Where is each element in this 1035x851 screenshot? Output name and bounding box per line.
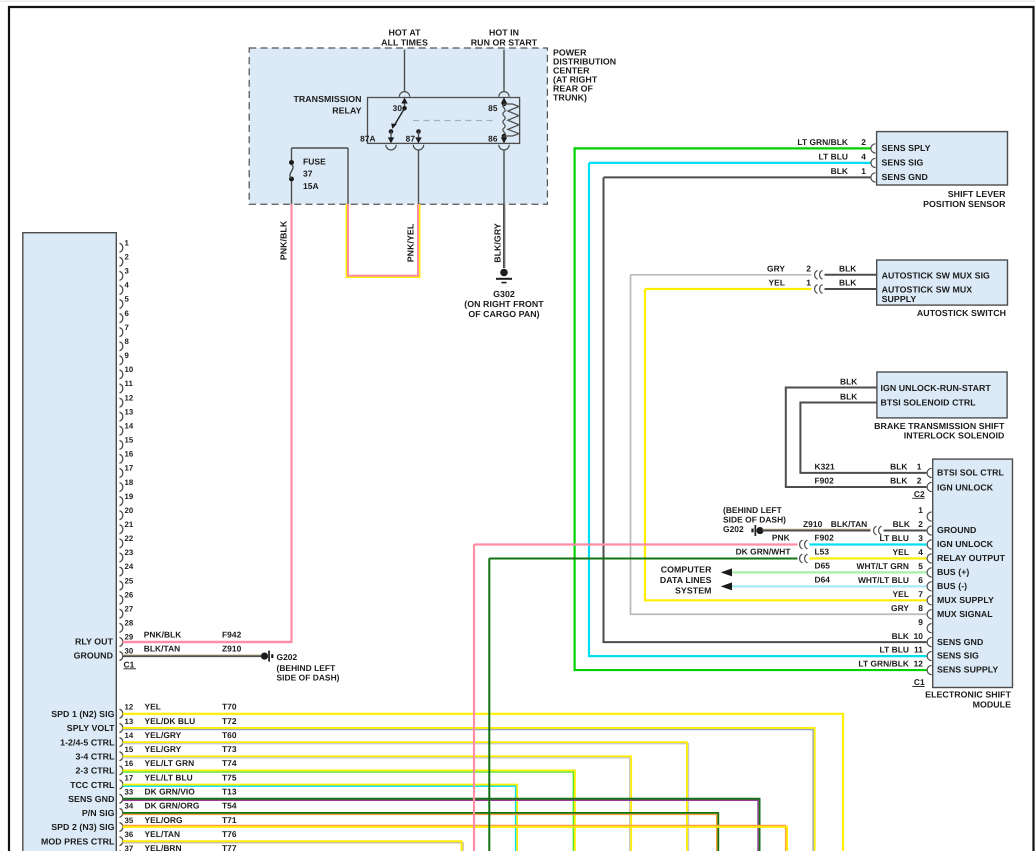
svg-text:33: 33: [125, 788, 134, 797]
svg-text:GROUND: GROUND: [937, 525, 976, 535]
svg-text:14: 14: [125, 421, 134, 430]
svg-text:23: 23: [125, 548, 134, 557]
svg-text:PNK/BLK: PNK/BLK: [279, 220, 289, 260]
svg-text:36: 36: [125, 830, 134, 839]
svg-text:D65: D65: [815, 561, 831, 571]
svg-text:RUN OR START: RUN OR START: [471, 38, 538, 48]
svg-text:MODULE: MODULE: [973, 700, 1011, 710]
svg-text:BUS (+): BUS (+): [937, 567, 969, 577]
svg-text:24: 24: [125, 562, 134, 571]
svg-text:15: 15: [125, 745, 134, 754]
svg-text:1: 1: [861, 166, 866, 176]
svg-text:YEL/ORG: YEL/ORG: [145, 815, 183, 825]
svg-text:29: 29: [125, 633, 134, 642]
svg-text:F902: F902: [815, 476, 835, 486]
svg-text:Z910: Z910: [222, 644, 242, 654]
svg-text:28: 28: [125, 619, 134, 628]
svg-text:26: 26: [125, 590, 134, 599]
svg-text:Z910: Z910: [803, 519, 823, 529]
svg-text:YEL/DK BLU: YEL/DK BLU: [145, 716, 196, 726]
svg-text:15A: 15A: [303, 181, 319, 191]
svg-text:T54: T54: [222, 801, 237, 811]
svg-text:14: 14: [125, 731, 134, 740]
svg-text:RLY OUT: RLY OUT: [75, 636, 114, 646]
svg-text:2: 2: [861, 137, 866, 147]
svg-text:YEL: YEL: [893, 547, 909, 557]
svg-text:(ON RIGHT FRONT: (ON RIGHT FRONT: [464, 299, 544, 309]
svg-text:BUS (-): BUS (-): [937, 581, 967, 591]
svg-text:30: 30: [393, 103, 403, 113]
svg-text:(BEHIND LEFT: (BEHIND LEFT: [723, 505, 783, 515]
svg-text:4: 4: [125, 281, 130, 290]
svg-text:AUTOSTICK SW MUX SIG: AUTOSTICK SW MUX SIG: [882, 270, 990, 280]
svg-text:19: 19: [125, 492, 134, 501]
svg-text:SIDE OF DASH): SIDE OF DASH): [277, 672, 340, 682]
svg-text:6: 6: [918, 575, 923, 585]
svg-text:AUTOSTICK SWITCH: AUTOSTICK SWITCH: [917, 308, 1006, 318]
svg-text:T71: T71: [222, 815, 237, 825]
svg-text:HOT IN: HOT IN: [489, 28, 519, 38]
svg-text:16: 16: [125, 450, 134, 459]
svg-text:WHT/LT BLU: WHT/LT BLU: [858, 575, 909, 585]
svg-text:YEL/GRY: YEL/GRY: [145, 730, 182, 740]
svg-text:4: 4: [861, 152, 866, 162]
svg-text:13: 13: [125, 407, 134, 416]
svg-text:LT BLU: LT BLU: [819, 152, 848, 162]
svg-text:7: 7: [918, 589, 923, 599]
svg-text:T74: T74: [222, 758, 237, 768]
svg-text:GRY: GRY: [891, 603, 909, 613]
svg-text:11: 11: [914, 645, 923, 655]
svg-text:12: 12: [914, 659, 924, 669]
svg-text:86: 86: [488, 134, 498, 144]
svg-text:RELAY: RELAY: [332, 106, 361, 116]
svg-text:YEL: YEL: [893, 589, 909, 599]
svg-text:T70: T70: [222, 702, 237, 712]
svg-text:3: 3: [125, 267, 130, 276]
svg-text:DK GRN/WHT: DK GRN/WHT: [736, 547, 792, 557]
svg-text:21: 21: [125, 520, 134, 529]
svg-text:BLK/TAN: BLK/TAN: [831, 519, 867, 529]
svg-text:1: 1: [806, 278, 811, 288]
svg-text:12: 12: [125, 703, 134, 712]
svg-text:2: 2: [125, 252, 130, 261]
svg-text:DATA LINES: DATA LINES: [660, 575, 712, 585]
svg-text:MUX SUPPLY: MUX SUPPLY: [937, 595, 994, 605]
svg-text:F942: F942: [222, 630, 242, 640]
svg-text:8: 8: [918, 603, 923, 613]
svg-text:GROUND: GROUND: [74, 650, 113, 660]
svg-text:T60: T60: [222, 730, 237, 740]
svg-text:P/N SIG: P/N SIG: [82, 808, 115, 818]
svg-text:3-4 CTRL: 3-4 CTRL: [75, 751, 115, 761]
svg-text:DK GRN/VIO: DK GRN/VIO: [145, 787, 196, 797]
svg-text:BLK: BLK: [890, 462, 907, 472]
svg-text:BLK: BLK: [839, 278, 856, 288]
svg-text:TRUNK): TRUNK): [553, 93, 587, 103]
svg-text:YEL/LT BLU: YEL/LT BLU: [145, 772, 193, 782]
svg-text:87A: 87A: [360, 134, 375, 144]
svg-text:5: 5: [918, 561, 923, 571]
svg-text:SPD 2 (N3) SIG: SPD 2 (N3) SIG: [51, 822, 114, 832]
svg-text:35: 35: [125, 816, 134, 825]
svg-text:IGN UNLOCK: IGN UNLOCK: [937, 539, 994, 549]
svg-text:IGN UNLOCK: IGN UNLOCK: [937, 482, 994, 492]
svg-text:2: 2: [806, 263, 811, 273]
svg-text:1: 1: [917, 462, 922, 472]
svg-text:BRAKE TRANSMISSION SHIFT: BRAKE TRANSMISSION SHIFT: [874, 421, 1005, 431]
svg-text:GRY: GRY: [767, 263, 785, 273]
svg-text:YEL/GRY: YEL/GRY: [145, 744, 182, 754]
svg-text:BLK: BLK: [840, 391, 857, 401]
svg-text:YEL/LT GRN: YEL/LT GRN: [145, 758, 195, 768]
svg-text:LT GRN/BLK: LT GRN/BLK: [797, 137, 848, 147]
svg-text:WHT/LT GRN: WHT/LT GRN: [857, 561, 909, 571]
svg-text:5: 5: [125, 295, 130, 304]
svg-text:SENS GND: SENS GND: [68, 794, 114, 804]
svg-text:FUSE: FUSE: [303, 157, 326, 167]
svg-text:SPD 1 (N2) SIG: SPD 1 (N2) SIG: [51, 709, 114, 719]
svg-text:12: 12: [125, 393, 134, 402]
svg-text:SHIFT LEVER: SHIFT LEVER: [948, 189, 1006, 199]
svg-text:BLK/TAN: BLK/TAN: [144, 644, 180, 654]
svg-text:85: 85: [488, 103, 498, 113]
svg-text:BLK: BLK: [893, 519, 910, 529]
svg-text:RELAY OUTPUT: RELAY OUTPUT: [937, 553, 1006, 563]
svg-text:25: 25: [125, 576, 134, 585]
svg-text:ALL TIMES: ALL TIMES: [381, 38, 428, 48]
svg-text:9: 9: [918, 617, 923, 627]
svg-text:(BEHIND LEFT: (BEHIND LEFT: [277, 663, 337, 673]
svg-text:D64: D64: [815, 575, 831, 585]
svg-text:MOD PRES CTRL: MOD PRES CTRL: [41, 836, 115, 846]
svg-text:LT GRN/BLK: LT GRN/BLK: [858, 659, 909, 669]
svg-text:2: 2: [918, 519, 923, 529]
svg-text:YEL/TAN: YEL/TAN: [145, 829, 181, 839]
svg-text:34: 34: [125, 802, 134, 811]
svg-text:87: 87: [406, 134, 416, 144]
svg-text:4: 4: [918, 547, 923, 557]
svg-text:SUPPLY: SUPPLY: [882, 294, 917, 304]
svg-text:OF CARGO PAN): OF CARGO PAN): [468, 309, 539, 319]
svg-text:7: 7: [125, 323, 129, 332]
svg-text:10: 10: [914, 631, 924, 641]
svg-text:HOT AT: HOT AT: [388, 28, 421, 38]
svg-text:BLK: BLK: [840, 376, 857, 386]
svg-text:BLK: BLK: [839, 263, 856, 273]
svg-text:22: 22: [125, 534, 134, 543]
svg-text:17: 17: [125, 464, 134, 473]
svg-text:F902: F902: [815, 533, 835, 543]
svg-text:K321: K321: [815, 462, 836, 472]
svg-text:MUX SIGNAL: MUX SIGNAL: [937, 609, 993, 619]
svg-text:G202: G202: [277, 652, 298, 662]
svg-text:3: 3: [918, 533, 923, 543]
svg-text:27: 27: [125, 604, 134, 613]
svg-text:10: 10: [125, 365, 134, 374]
svg-text:T76: T76: [222, 829, 237, 839]
svg-text:37: 37: [303, 169, 313, 179]
svg-text:YEL: YEL: [145, 702, 161, 712]
svg-text:BLK: BLK: [831, 166, 848, 176]
svg-text:C2: C2: [914, 489, 925, 499]
svg-text:1: 1: [125, 238, 130, 247]
svg-text:SIDE OF DASH): SIDE OF DASH): [723, 515, 786, 525]
svg-text:BTSI SOLENOID CTRL: BTSI SOLENOID CTRL: [881, 397, 977, 407]
svg-text:POSITION SENSOR: POSITION SENSOR: [923, 199, 1006, 209]
svg-text:1-2/4-5 CTRL: 1-2/4-5 CTRL: [60, 737, 115, 747]
svg-text:18: 18: [125, 478, 134, 487]
svg-text:TRANSMISSION: TRANSMISSION: [293, 94, 361, 104]
svg-text:37: 37: [125, 844, 134, 851]
svg-text:20: 20: [125, 506, 134, 515]
svg-text:C1: C1: [124, 659, 135, 669]
svg-text:16: 16: [125, 759, 134, 768]
svg-text:DK GRN/ORG: DK GRN/ORG: [145, 801, 200, 811]
svg-text:9: 9: [125, 351, 130, 360]
svg-text:SENS GND: SENS GND: [882, 172, 928, 182]
svg-text:13: 13: [125, 717, 134, 726]
svg-text:SENS SIG: SENS SIG: [937, 651, 979, 661]
svg-text:8: 8: [125, 337, 130, 346]
svg-text:L53: L53: [815, 547, 830, 557]
svg-text:PNK/YEL: PNK/YEL: [406, 223, 416, 262]
svg-text:SENS SIG: SENS SIG: [882, 158, 924, 168]
svg-text:SENS SPLY: SENS SPLY: [882, 143, 931, 153]
svg-text:T75: T75: [222, 772, 237, 782]
svg-text:C1: C1: [914, 677, 925, 687]
svg-text:ELECTRONIC SHIFT: ELECTRONIC SHIFT: [925, 690, 1011, 700]
svg-text:BLK: BLK: [892, 631, 909, 641]
svg-text:11: 11: [125, 379, 134, 388]
svg-text:T73: T73: [222, 744, 237, 754]
svg-text:G302: G302: [493, 289, 515, 299]
svg-text:BTSI SOL CTRL: BTSI SOL CTRL: [937, 468, 1005, 478]
svg-text:2: 2: [917, 476, 922, 486]
svg-text:YEL/BRN: YEL/BRN: [145, 843, 182, 851]
svg-text:T13: T13: [222, 787, 237, 797]
svg-text:INTERLOCK SOLENOID: INTERLOCK SOLENOID: [904, 431, 1005, 441]
svg-text:TCC CTRL: TCC CTRL: [70, 780, 115, 790]
svg-text:IGN UNLOCK-RUN-START: IGN UNLOCK-RUN-START: [881, 383, 992, 393]
svg-text:6: 6: [125, 309, 130, 318]
svg-text:2-3 CTRL: 2-3 CTRL: [75, 766, 115, 776]
svg-text:LT BLU: LT BLU: [880, 645, 909, 655]
svg-text:1: 1: [918, 505, 923, 515]
svg-text:PNK: PNK: [772, 533, 790, 543]
svg-text:G202: G202: [723, 524, 744, 534]
svg-text:LT BLU: LT BLU: [880, 533, 909, 543]
svg-text:SENS GND: SENS GND: [937, 637, 983, 647]
svg-text:COMPUTER: COMPUTER: [661, 564, 712, 574]
svg-text:YEL: YEL: [769, 278, 785, 288]
svg-text:PNK/BLK: PNK/BLK: [144, 630, 182, 640]
svg-text:15: 15: [125, 436, 134, 445]
svg-text:BLK: BLK: [890, 476, 907, 486]
svg-text:BLK/GRY: BLK/GRY: [493, 223, 503, 263]
svg-text:T77: T77: [222, 843, 237, 851]
svg-text:SYSTEM: SYSTEM: [675, 585, 711, 595]
svg-text:17: 17: [125, 773, 134, 782]
svg-text:SPLY VOLT: SPLY VOLT: [67, 723, 115, 733]
svg-text:SENS SUPPLY: SENS SUPPLY: [937, 665, 998, 675]
svg-text:T72: T72: [222, 716, 237, 726]
